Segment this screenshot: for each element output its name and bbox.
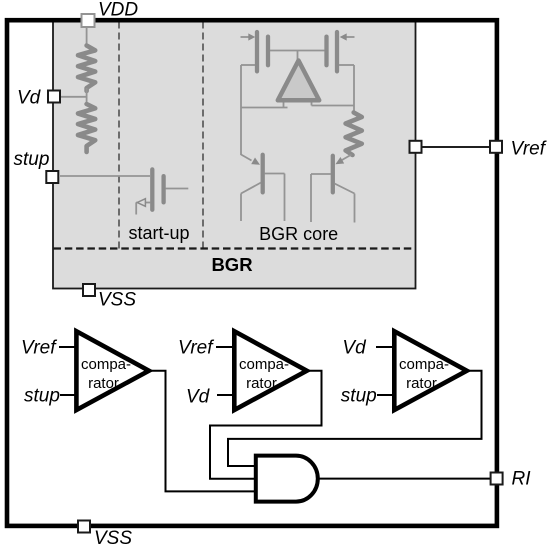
svg-text:stup: stup xyxy=(24,386,60,407)
port Vref on BGR block xyxy=(410,141,422,153)
transistor Q1 left BJT xyxy=(241,155,285,222)
svg-text:compa-: compa- xyxy=(399,356,449,373)
wire source node to op-amp apex xyxy=(297,51,299,63)
svg-text:VSS: VSS xyxy=(98,290,136,311)
svg-text:rator: rator xyxy=(246,375,277,392)
transistor M3 right PMOS xyxy=(327,32,355,71)
wire stup to M1 gate xyxy=(60,175,150,177)
svg-text:Vd: Vd xyxy=(17,88,42,109)
wire comparator U2 output to AND input 3 xyxy=(149,371,257,492)
wire Vd tap to resistors xyxy=(60,96,87,98)
port RI xyxy=(491,473,503,485)
resistor R2 xyxy=(78,104,95,152)
transistor M2 left PMOS xyxy=(241,32,269,71)
svg-text:stup: stup xyxy=(14,149,50,170)
wire comparator U3 output to AND input 2 xyxy=(210,371,322,479)
comparator U2 xyxy=(59,331,149,410)
svg-text:Vd: Vd xyxy=(186,387,211,408)
svg-text:compa-: compa- xyxy=(239,356,289,373)
dashed divider horizontal above BGR label xyxy=(54,247,416,249)
transistor M1 start-up NMOS xyxy=(136,169,188,214)
svg-text:stup: stup xyxy=(341,386,377,407)
BGR block xyxy=(53,21,416,289)
svg-text:rator: rator xyxy=(88,375,119,392)
wire comparator U4 output to AND input 1 xyxy=(228,371,482,466)
wire left gate stub xyxy=(241,64,255,66)
svg-text:BGR core: BGR core xyxy=(259,224,338,244)
dashed divider left of start-up region xyxy=(118,22,120,249)
svg-text:start-up: start-up xyxy=(128,223,189,243)
and gate U5 xyxy=(256,456,318,502)
wire right gate stub xyxy=(339,64,354,66)
wire R1 to R2 xyxy=(86,88,88,105)
wire left branch vertical xyxy=(240,65,242,155)
resistor R1 xyxy=(78,46,95,92)
wire VDD to R1 xyxy=(86,27,88,46)
svg-text:Vd: Vd xyxy=(342,338,367,359)
svg-text:compa-: compa- xyxy=(81,356,131,373)
wire Vref from BGR to pad xyxy=(416,146,489,148)
comparator U3 xyxy=(216,331,307,410)
wire op-amp right input xyxy=(312,105,355,107)
port stup xyxy=(46,171,58,183)
wire AND output to RI pad xyxy=(319,478,490,480)
wire right branch vertical xyxy=(353,65,355,114)
port Vref on chip border xyxy=(490,141,502,153)
port VDD xyxy=(82,14,95,27)
resistor R3 xyxy=(346,113,362,156)
port VSS on chip border xyxy=(78,521,90,533)
svg-text:Vref: Vref xyxy=(511,139,547,160)
comparator U4 xyxy=(376,331,467,410)
transistor Q2 right BJT xyxy=(311,155,355,223)
svg-text:Vref: Vref xyxy=(178,338,214,359)
svg-text:Vref: Vref xyxy=(21,338,57,359)
dashed divider right of start-up region xyxy=(202,22,204,249)
svg-text:RI: RI xyxy=(512,469,532,490)
svg-text:VDD: VDD xyxy=(98,0,138,21)
svg-text:rator: rator xyxy=(406,375,437,392)
svg-text:BGR: BGR xyxy=(211,254,252,275)
port VSS on BGR block xyxy=(83,284,95,296)
svg-text:VSS: VSS xyxy=(94,528,132,549)
port Vd xyxy=(48,91,60,103)
wire op-amp left input xyxy=(241,107,288,109)
wire between PMOS sources xyxy=(270,50,325,52)
op-amp U1 xyxy=(278,61,319,108)
